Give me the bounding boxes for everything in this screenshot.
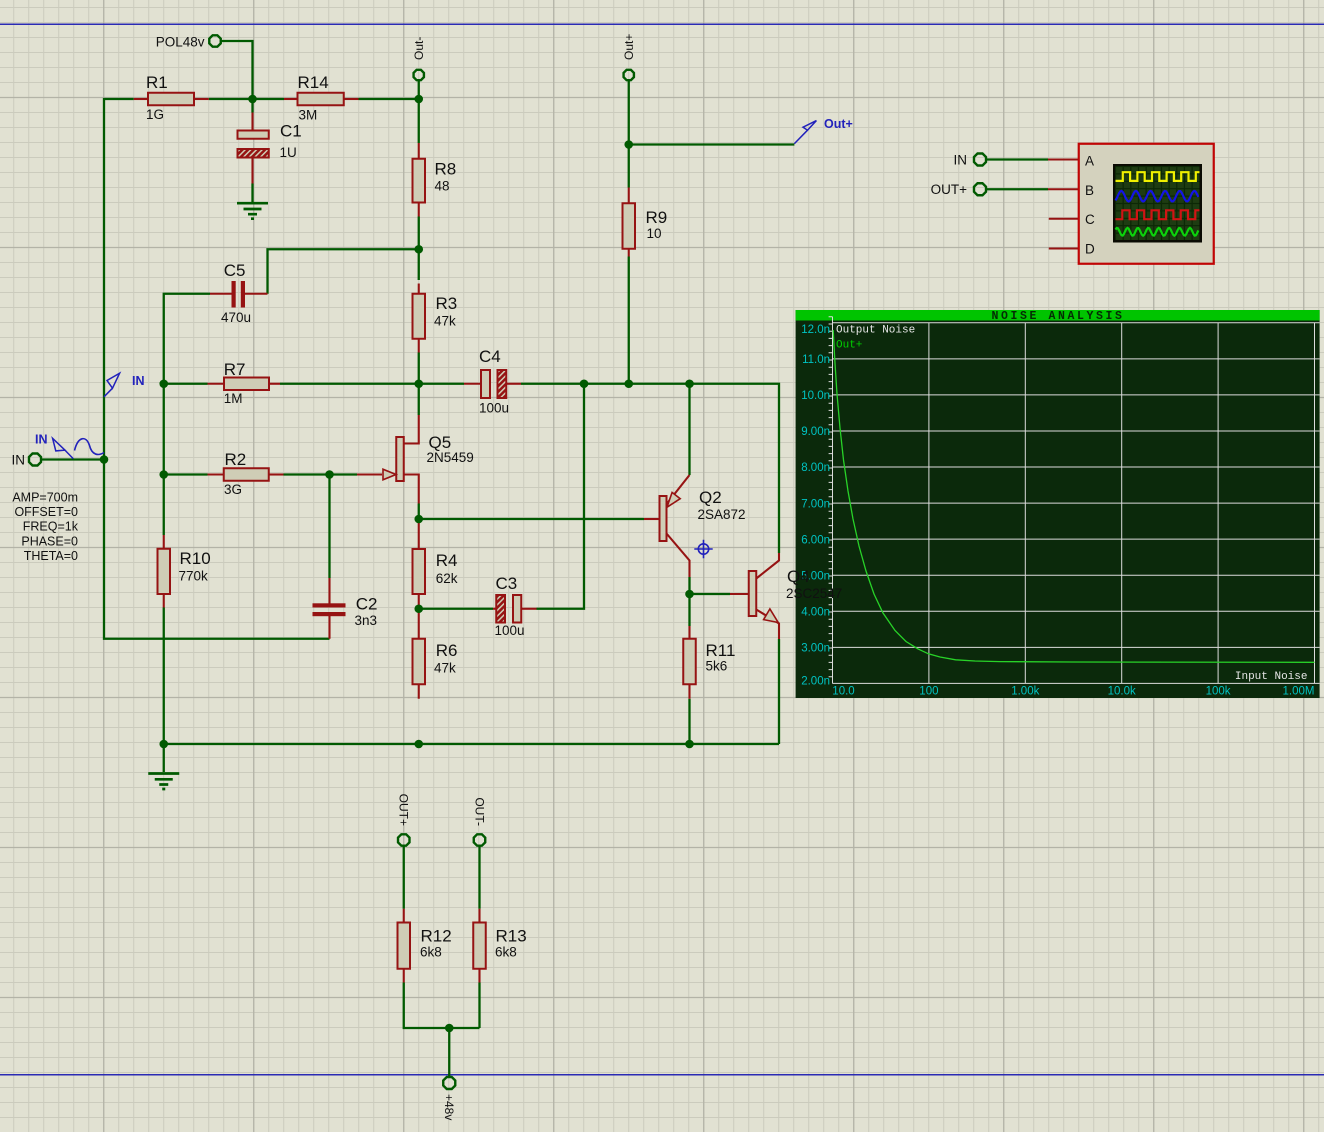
resistor R2 body xyxy=(224,468,269,481)
svg-text:R10: R10 xyxy=(180,549,211,568)
wire R13 bottom xyxy=(478,983,480,1029)
lead R12 bottom xyxy=(403,969,405,983)
svg-text:R14: R14 xyxy=(298,73,329,92)
svg-text:1M: 1M xyxy=(224,391,243,406)
sine wave symbol xyxy=(75,439,105,455)
junction node 5 xyxy=(580,379,589,388)
wire C3 right up to net row xyxy=(537,384,585,609)
svg-text:R9: R9 xyxy=(646,208,668,227)
lead R7 right xyxy=(269,383,280,385)
svg-text:R7: R7 xyxy=(224,360,246,379)
capacitor C3 plate2 xyxy=(513,595,521,623)
lead Q4 base xyxy=(730,593,749,595)
svg-text:POL48v: POL48v xyxy=(156,35,205,50)
svg-text:1U: 1U xyxy=(280,145,297,160)
svg-text:3.00n: 3.00n xyxy=(801,643,830,655)
wire R12 bottom xyxy=(404,983,480,1029)
noise plot gridlines xyxy=(833,323,1320,684)
svg-text:10: 10 xyxy=(647,226,662,241)
svg-text:C4: C4 xyxy=(479,347,501,366)
lead R2 left xyxy=(208,473,224,475)
terminal Out+ top xyxy=(624,70,634,80)
sheet border top xyxy=(0,23,1324,25)
junction node 2 xyxy=(414,245,423,254)
capacitor C1 plate2 (hatched) xyxy=(238,149,269,158)
terminal scope OUT+ xyxy=(974,183,986,195)
lead C4 right xyxy=(506,383,521,385)
junction node 3 xyxy=(159,379,168,388)
svg-text:10.0: 10.0 xyxy=(832,686,854,698)
oscilloscope U1 body xyxy=(1079,144,1214,264)
wire Q4 emitter down to bus xyxy=(778,639,780,744)
wire POL48v to R1/C1 node xyxy=(222,41,253,113)
svg-text:Q2: Q2 xyxy=(699,488,722,507)
svg-text:2N5459: 2N5459 xyxy=(427,450,474,465)
svg-text:C3: C3 xyxy=(496,574,518,593)
svg-text:PHASE=0: PHASE=0 xyxy=(21,534,78,548)
wire node A to R14 xyxy=(253,98,285,100)
svg-text:11.0n: 11.0n xyxy=(802,354,830,366)
lead R13 top xyxy=(478,909,480,923)
svg-text:Out-: Out- xyxy=(412,37,426,60)
lead R14 right xyxy=(344,98,359,100)
svg-text:OUT+: OUT+ xyxy=(931,182,967,197)
wire IN to trunk xyxy=(42,458,105,460)
wire R14 to Out- node xyxy=(359,98,419,100)
svg-text:Out+: Out+ xyxy=(622,34,636,60)
transistor Q2 emitter arrow xyxy=(667,492,680,507)
junction node 16 xyxy=(414,740,423,749)
resistor R6 body xyxy=(413,639,426,685)
wire R8 to node B xyxy=(418,217,420,281)
resistor R1 body xyxy=(148,93,194,106)
resistor R14 body xyxy=(298,93,344,106)
wire Q5 source to node E xyxy=(418,504,420,520)
svg-text:AMP=700m: AMP=700m xyxy=(12,491,78,505)
wire R10 top xyxy=(163,475,165,536)
wire C4 to net row xyxy=(521,384,779,553)
junction node 17 xyxy=(685,740,694,749)
svg-text:2.00n: 2.00n xyxy=(801,676,830,688)
lead C5 right xyxy=(245,293,268,295)
junction node 0 xyxy=(248,95,257,104)
scope trace C red xyxy=(1116,210,1200,219)
svg-text:IN: IN xyxy=(954,153,968,168)
junction node 15 xyxy=(159,740,168,749)
wire node E to Q2 base xyxy=(419,518,644,520)
lead C2 bottom xyxy=(328,616,330,639)
wire Q2 emitter column xyxy=(688,384,690,475)
svg-text:47k: 47k xyxy=(434,314,456,329)
capacitor C1 plate1 xyxy=(238,131,269,139)
svg-text:10.0k: 10.0k xyxy=(1108,686,1136,698)
svg-text:100u: 100u xyxy=(479,401,509,416)
terminal POL48v xyxy=(209,35,220,46)
lead C1 top xyxy=(251,113,253,131)
svg-text:8.00n: 8.00n xyxy=(801,462,830,474)
svg-text:1.00M: 1.00M xyxy=(1283,686,1315,698)
capacitor C3 plate1 (hatched) xyxy=(496,595,505,623)
lead R10 top xyxy=(163,535,165,549)
svg-text:R4: R4 xyxy=(436,551,458,570)
noise curve Out+ xyxy=(833,330,1314,662)
svg-text:R3: R3 xyxy=(436,294,458,313)
resistor R10 body xyxy=(158,549,171,594)
lead R6 bottom xyxy=(418,684,420,699)
resistor R11 body xyxy=(683,639,696,685)
capacitor C4 plate2 (hatched) xyxy=(498,370,507,398)
svg-text:OUT-: OUT- xyxy=(472,797,486,826)
svg-text:Q4: Q4 xyxy=(787,567,810,586)
ground main xyxy=(148,774,179,790)
svg-text:48: 48 xyxy=(435,179,450,194)
resistor R12 body xyxy=(398,923,411,969)
wire node F to C3 xyxy=(419,608,493,610)
svg-text:Output Noise: Output Noise xyxy=(836,325,915,337)
wire R2 left xyxy=(164,473,208,475)
junction node 9 xyxy=(100,455,109,464)
svg-text:10.0n: 10.0n xyxy=(801,390,830,402)
svg-text:OFFSET=0: OFFSET=0 xyxy=(14,505,78,519)
terminal OUT- bottom xyxy=(474,834,485,845)
lead Q5 gate wire xyxy=(357,473,382,475)
wire R11 bottom to bus xyxy=(688,699,690,744)
svg-text:2SC2547: 2SC2547 xyxy=(786,586,842,601)
svg-text:100: 100 xyxy=(919,686,938,698)
lead Q5 drain xyxy=(404,415,419,444)
svg-text:100u: 100u xyxy=(495,623,525,638)
wire gnd bus xyxy=(164,743,779,745)
lead R12 top xyxy=(403,909,405,923)
junction node 11 xyxy=(325,470,334,479)
resistor R4 body xyxy=(413,549,426,594)
svg-text:3M: 3M xyxy=(299,108,318,123)
noise analysis window frame xyxy=(796,310,1320,698)
junction node 18 xyxy=(445,1024,454,1033)
lead scope B xyxy=(1048,188,1079,190)
lead R14 left xyxy=(284,98,298,100)
lead C3 left xyxy=(493,608,496,610)
svg-text:1G: 1G xyxy=(146,107,164,122)
wire OUT+ to R12 xyxy=(403,847,405,909)
svg-text:5k6: 5k6 xyxy=(706,659,728,674)
lead R9 bottom xyxy=(628,249,630,257)
svg-text:2SA872: 2SA872 xyxy=(698,507,746,522)
lead R4 bottom xyxy=(418,594,420,608)
svg-text:1.00k: 1.00k xyxy=(1011,686,1039,698)
lead scope D xyxy=(1049,247,1079,249)
svg-text:R8: R8 xyxy=(435,160,457,179)
lead scope A xyxy=(1048,158,1079,160)
lead R11 top xyxy=(688,626,690,639)
lead R8 top xyxy=(418,143,420,159)
net arrow Out+ xyxy=(794,130,807,143)
capacitor C5 plates xyxy=(232,281,236,308)
svg-text:47k: 47k xyxy=(434,661,456,676)
lead Q2 base xyxy=(644,518,660,520)
svg-text:Out+: Out+ xyxy=(836,340,862,352)
wire node C to C4 xyxy=(419,383,464,385)
wire Q5 drain up to node C xyxy=(418,384,420,415)
wire node D down to C2 xyxy=(328,475,330,579)
wire R7 right to node C xyxy=(280,383,419,385)
wire Out- node down to R8 xyxy=(418,99,420,143)
wire Out+ node down to R9 xyxy=(628,145,630,188)
terminal scope IN xyxy=(974,153,986,165)
svg-text:R6: R6 xyxy=(436,641,458,660)
lead R8 bottom xyxy=(418,203,420,217)
svg-text:FREQ=1k: FREQ=1k xyxy=(23,520,79,534)
wire R3 to node C xyxy=(418,353,420,384)
lead Q5 source xyxy=(404,475,419,504)
junction node 1 xyxy=(414,95,423,104)
crosshair cursor xyxy=(694,540,712,558)
scope trace B blue xyxy=(1116,191,1199,202)
wire C1 bottom to gnd xyxy=(251,184,253,203)
lead R11 bottom xyxy=(688,684,690,699)
lead Q2 collector xyxy=(667,534,690,578)
wire +48v riser xyxy=(448,1028,450,1077)
sheet border bottom xyxy=(0,1074,1324,1076)
lead C3 right xyxy=(521,608,536,610)
wire node G to Q4 base xyxy=(690,593,731,595)
lead C4 left xyxy=(464,383,481,385)
terminal Out- top xyxy=(414,70,424,80)
junction node 8 xyxy=(624,140,633,149)
svg-text:470u: 470u xyxy=(221,310,251,325)
wire Out+ tap right xyxy=(629,143,795,145)
svg-text:100k: 100k xyxy=(1206,686,1231,698)
lead R1 right xyxy=(194,98,209,100)
wire node D to Q5 gate xyxy=(330,473,358,475)
wire scope A xyxy=(987,158,1049,160)
lead Q4 collector xyxy=(756,553,779,579)
wire Out- terminal down xyxy=(418,81,420,99)
wire node G down to R11 xyxy=(688,594,690,626)
wire R4 to node F xyxy=(418,608,420,610)
svg-text:IN: IN xyxy=(132,374,145,388)
wire Q2 collector to node G xyxy=(688,577,690,594)
svg-text:R1: R1 xyxy=(146,73,168,92)
oscilloscope screen xyxy=(1113,164,1202,243)
lead R4 top xyxy=(418,522,420,549)
terminal IN xyxy=(29,453,41,465)
noise analysis title bar xyxy=(796,310,1320,321)
junction node 13 xyxy=(414,604,423,613)
junction node 12 xyxy=(414,515,423,524)
wire C5 right to node B xyxy=(268,249,419,294)
svg-text:IN: IN xyxy=(12,453,26,468)
junction node 6 xyxy=(624,379,633,388)
wire node E down to R4 xyxy=(418,519,420,522)
ground under C1 xyxy=(237,203,268,219)
transistor Q2 bar xyxy=(660,496,667,541)
svg-text:9.00n: 9.00n xyxy=(801,426,830,438)
svg-text:12.0n: 12.0n xyxy=(801,324,830,336)
svg-text:6k8: 6k8 xyxy=(420,945,442,960)
svg-text:3n3: 3n3 xyxy=(355,613,378,628)
svg-text:A: A xyxy=(1085,154,1094,169)
resistor R13 body xyxy=(473,923,486,969)
wire Out+ terminal down xyxy=(628,81,630,145)
lead C2 top xyxy=(328,578,330,604)
junction node 4 xyxy=(414,379,423,388)
svg-text:IN: IN xyxy=(35,433,48,447)
lead Q4 emitter xyxy=(756,610,779,640)
wire R9 to net row xyxy=(628,257,630,384)
scope trace D green xyxy=(1116,228,1199,236)
noise plot x labels xyxy=(832,686,1314,698)
lead R13 bottom xyxy=(478,969,480,983)
resistor R9 body xyxy=(623,203,636,249)
transistor Q5 gate arrow xyxy=(383,469,396,480)
svg-text:770k: 770k xyxy=(179,569,209,584)
lead scope C xyxy=(1049,218,1079,220)
svg-text:Out+: Out+ xyxy=(824,117,853,131)
junction node 14 xyxy=(685,590,694,599)
lead R9 top xyxy=(628,188,630,204)
capacitor C4 plate1 xyxy=(481,370,490,398)
svg-text:Input Noise: Input Noise xyxy=(1235,671,1308,683)
capacitor C2 plates xyxy=(313,603,346,607)
wire gnd stub xyxy=(163,744,165,772)
wire R2 right to node D xyxy=(284,473,330,475)
resistor R8 body xyxy=(413,159,426,203)
terminal OUT+ bottom xyxy=(398,834,409,845)
svg-text:R11: R11 xyxy=(706,641,736,660)
svg-text:6.00n: 6.00n xyxy=(801,534,830,546)
wire node A trunk left xyxy=(104,99,330,639)
noise plot y labels xyxy=(801,324,830,688)
svg-text:+48v: +48v xyxy=(442,1094,456,1120)
svg-text:THETA=0: THETA=0 xyxy=(24,549,78,563)
svg-text:6k8: 6k8 xyxy=(495,945,517,960)
svg-text:62k: 62k xyxy=(436,571,458,586)
svg-text:C2: C2 xyxy=(356,595,378,614)
svg-text:7.00n: 7.00n xyxy=(801,498,830,510)
svg-text:NOISE ANALYSIS: NOISE ANALYSIS xyxy=(991,310,1124,323)
svg-text:C1: C1 xyxy=(280,122,302,141)
lead R7 left xyxy=(208,383,225,385)
svg-text:R13: R13 xyxy=(496,927,527,946)
lead R2 right xyxy=(269,473,284,475)
wire R1 right to node A xyxy=(209,98,253,100)
lead C1 bottom xyxy=(251,158,253,184)
svg-text:C5: C5 xyxy=(224,261,246,280)
lead R10 bottom xyxy=(163,594,165,608)
wire R7 line left xyxy=(164,383,208,385)
terminal +48v xyxy=(443,1077,455,1089)
svg-text:4.00n: 4.00n xyxy=(801,606,830,618)
resistor R7 body xyxy=(224,378,269,391)
lead Q2 emitter xyxy=(667,475,690,504)
svg-text:OUT+: OUT+ xyxy=(397,794,411,826)
lead C5 left xyxy=(210,293,232,295)
lead R3 bottom xyxy=(418,339,420,353)
transistor Q4 bar xyxy=(749,571,757,616)
lead R3 top xyxy=(418,284,420,294)
lead R4-R6 mid xyxy=(418,611,420,639)
wire C5 left xyxy=(164,294,210,384)
transistor Q4 emitter arrow xyxy=(764,609,779,623)
svg-text:R12: R12 xyxy=(421,927,452,946)
svg-text:C: C xyxy=(1085,212,1095,227)
wire OUT- to R13 xyxy=(478,847,480,909)
transistor Q5 bar xyxy=(396,437,404,481)
wire trunk to R2 node xyxy=(104,384,164,475)
svg-text:3G: 3G xyxy=(224,482,242,497)
lead R1 left xyxy=(134,98,148,100)
scope trace A yellow xyxy=(1116,172,1200,181)
wire scope B xyxy=(987,188,1049,190)
svg-text:D: D xyxy=(1085,242,1095,257)
junction node 10 xyxy=(159,470,168,479)
svg-text:B: B xyxy=(1085,183,1094,198)
wire R10 bottom to gnd bus xyxy=(163,608,165,745)
net arrow IN at trunk xyxy=(104,388,113,397)
resistor R3 body xyxy=(413,294,426,339)
junction node 7 xyxy=(685,379,694,388)
net arrow IN at source xyxy=(65,450,73,459)
svg-text:R2: R2 xyxy=(225,450,247,469)
